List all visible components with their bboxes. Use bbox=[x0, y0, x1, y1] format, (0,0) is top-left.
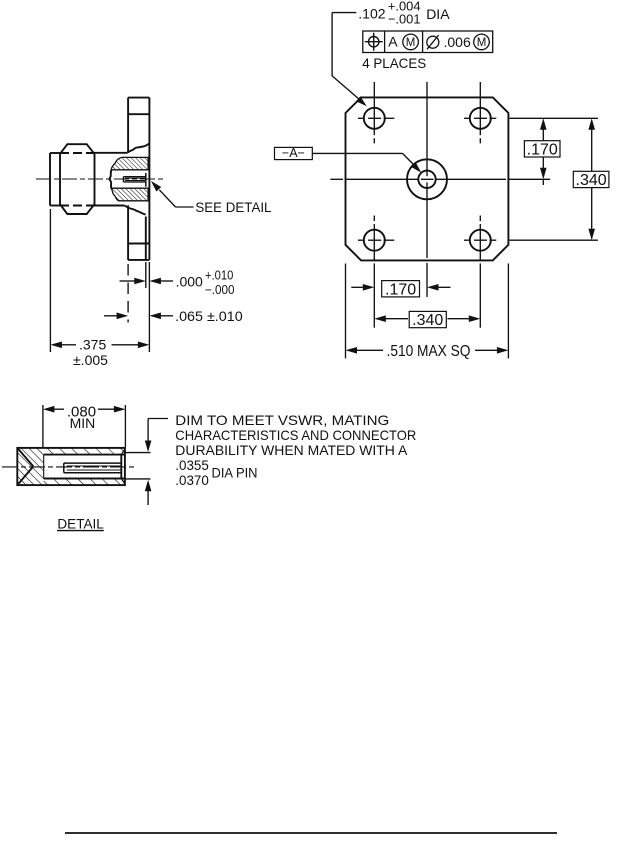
svg-text:.170: .170 bbox=[527, 141, 558, 158]
svg-text:MIN: MIN bbox=[70, 415, 96, 431]
svg-text:±.005: ±.005 bbox=[73, 352, 108, 368]
svg-text:−.001: −.001 bbox=[388, 12, 421, 27]
svg-text:M: M bbox=[406, 37, 416, 49]
svg-text:.375: .375 bbox=[79, 336, 106, 352]
svg-text:A: A bbox=[388, 34, 398, 50]
svg-text:−A−: −A− bbox=[282, 146, 305, 160]
svg-text:DIM TO MEET VSWR, MATING: DIM TO MEET VSWR, MATING bbox=[175, 412, 389, 428]
svg-text:.170: .170 bbox=[385, 281, 416, 298]
svg-text:DURABILITY WHEN MATED WITH A: DURABILITY WHEN MATED WITH A bbox=[175, 442, 408, 458]
svg-text:DETAIL: DETAIL bbox=[57, 515, 104, 531]
svg-text:.340: .340 bbox=[412, 312, 443, 329]
svg-text:.0370: .0370 bbox=[175, 472, 209, 488]
svg-text:.340: .340 bbox=[576, 172, 607, 189]
svg-text:.065 ±.010: .065 ±.010 bbox=[175, 308, 243, 324]
svg-text:SEE DETAIL: SEE DETAIL bbox=[195, 199, 271, 215]
svg-text:DIA: DIA bbox=[426, 6, 450, 22]
svg-text:.102: .102 bbox=[358, 6, 385, 22]
svg-text:−.000: −.000 bbox=[205, 283, 235, 297]
svg-text:.000: .000 bbox=[176, 274, 203, 290]
svg-text:+.010: +.010 bbox=[205, 269, 233, 283]
svg-text:4 PLACES: 4 PLACES bbox=[362, 55, 426, 71]
svg-text:.510 MAX SQ: .510 MAX SQ bbox=[387, 343, 471, 360]
svg-text:.0355: .0355 bbox=[175, 457, 209, 473]
svg-text:.006: .006 bbox=[444, 34, 471, 50]
svg-text:CHARACTERISTICS AND CONNECTOR: CHARACTERISTICS AND CONNECTOR bbox=[175, 427, 416, 443]
svg-text:DIA PIN: DIA PIN bbox=[212, 465, 258, 481]
svg-text:M: M bbox=[477, 37, 487, 49]
